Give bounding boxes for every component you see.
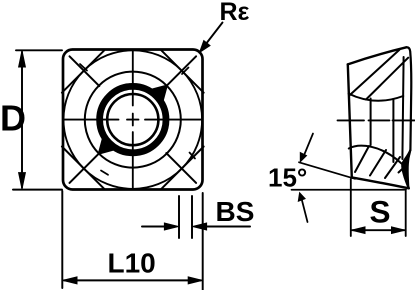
dimension L10 right arrow — [188, 277, 202, 284]
corner diagonal NE — [165, 56, 197, 88]
side view outline tail — [402, 150, 410, 188]
ring blob NE — [151, 87, 165, 101]
svg-text:S: S — [370, 194, 391, 230]
svg-text:BS: BS — [216, 196, 255, 227]
svg-text:15°: 15° — [268, 163, 307, 193]
dimension BS extension line A — [178, 196, 180, 238]
dimension BS left arrow — [142, 226, 166, 228]
side view outline left edge — [348, 64, 352, 177]
side view bottom face hatch 3 — [385, 157, 400, 178]
corner tangent facet line SW — [62, 147, 104, 189]
dimension BS extension line B — [191, 196, 193, 238]
dimension 15deg lower leg — [292, 189, 407, 191]
hole inner circle — [107, 94, 158, 145]
side view tail dark wedge — [402, 150, 410, 188]
side view top face hatch 1 — [349, 50, 399, 96]
dimension 15deg upper arrow — [304, 134, 314, 157]
dimension 15deg lower arrow — [302, 199, 308, 223]
corner tangent facet line SE — [161, 147, 203, 189]
inscribed circle — [64, 50, 203, 189]
svg-text:D: D — [0, 98, 26, 139]
side view top face near edge (upper neck curve) — [349, 94, 404, 101]
dimension L10 left arrow — [63, 277, 77, 284]
dimension D extension line bottom — [13, 189, 62, 191]
centerline horizontal (top view) — [64, 119, 203, 121]
corner hidden dash NE — [182, 68, 189, 75]
dimension D line — [21, 52, 23, 188]
insert top view outline — [63, 50, 203, 190]
side view outline top edge — [348, 47, 407, 64]
side view outline right edge — [406, 47, 411, 150]
dimension L10 line — [64, 279, 201, 281]
centerline vertical (top view) — [132, 51, 134, 189]
leader arrow R epsilon — [206, 23, 223, 45]
side view cone silhouette left — [370, 99, 372, 146]
corner diagonal SW — [70, 151, 102, 183]
dimension D arrow down — [19, 173, 26, 189]
side view lower neck curve — [349, 146, 402, 164]
dimension S right arrow — [392, 227, 406, 234]
dimension BS right arrow — [206, 226, 250, 228]
side view bottom face hatch 2 — [370, 150, 386, 176]
side view inner right edge — [402, 57, 403, 159]
dimension S extension line left — [350, 179, 352, 236]
side view tail hatch — [399, 164, 408, 173]
corner diagonal SE — [166, 153, 196, 183]
dimension S left arrow — [351, 227, 365, 234]
dimension D extension line top — [16, 49, 62, 51]
svg-text:Rε: Rε — [220, 0, 250, 26]
corner tangent facet line NW — [62, 50, 104, 92]
dimension S extension line right — [405, 191, 407, 236]
dimension S line — [352, 229, 405, 231]
right edge extension line — [202, 193, 204, 290]
corner diagonal NW — [70, 56, 100, 86]
side view centerline horizontal — [338, 119, 415, 121]
corner hidden dash SW — [101, 171, 108, 175]
chipbreaker circle — [85, 72, 181, 168]
corner tangent facet line NE — [161, 50, 203, 92]
dimension L10 extension line left — [61, 191, 63, 288]
dimension D arrow up — [19, 51, 26, 67]
side view bottom face hatch 1 — [355, 146, 369, 172]
side view outline bottom edge — [352, 177, 409, 188]
svg-text:L10: L10 — [108, 248, 156, 279]
side view cone silhouette right — [392, 99, 394, 162]
side view top face hatch 2 — [366, 58, 408, 100]
side view tail inner curve — [405, 150, 410, 188]
ring blob SW — [101, 138, 115, 152]
hole counterbore ring — [100, 86, 166, 152]
corner hidden dash SE — [190, 153, 196, 159]
corner hidden dash NW — [80, 64, 87, 71]
dimension 15deg upper leg — [299, 162, 355, 179]
